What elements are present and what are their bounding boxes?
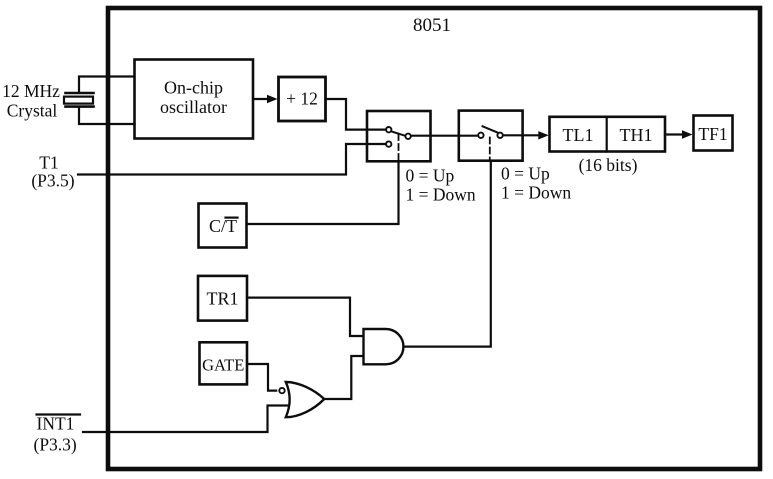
wire divide-by-12 to switch S1 upper input [326, 99, 387, 130]
wire INT1 to OR gate lower input [83, 406, 288, 433]
TR1 block [198, 276, 247, 321]
svg-text:INT1: INT1 [37, 414, 75, 434]
register TL1/TH1 [550, 117, 666, 152]
wire AND gate to switch S2 control [404, 161, 491, 347]
wire C/T to switch S1 control [247, 161, 399, 224]
crystal X1 [64, 93, 94, 107]
OR gate U2 inverted-input bubble [279, 388, 284, 393]
svg-text:TR1: TR1 [206, 289, 238, 309]
wire T1 to switch S1 lower input [78, 144, 386, 175]
switch S2 (run control) [459, 111, 523, 161]
OR gate U2 [286, 382, 324, 417]
svg-text:1 = Down: 1 = Down [501, 183, 571, 203]
svg-text:Crystal: Crystal [7, 101, 58, 121]
node INT1 (P3.3) [34, 414, 81, 455]
wire switch S2 to TL1 [504, 131, 549, 139]
wire crystal to oscillator bottom [79, 108, 135, 124]
on-chip oscillator block [135, 60, 254, 139]
node T1 (P3.5) [31, 153, 74, 191]
svg-text:TH1: TH1 [620, 125, 653, 145]
wire oscillator to divide-by-12 [253, 95, 278, 103]
label 12 MHz Crystal [2, 81, 60, 121]
wire TH1 to TF1 [665, 130, 693, 138]
wire crystal to oscillator top [79, 77, 135, 93]
C/T block [199, 204, 247, 248]
svg-text:C/T: C/T [209, 216, 237, 236]
label 0 = Up / 1 = Down (switch S1) [406, 166, 476, 205]
svg-text:0 = Up: 0 = Up [406, 166, 455, 186]
svg-text:T1: T1 [39, 153, 58, 173]
svg-text:oscillator: oscillator [160, 97, 227, 117]
svg-text:0 = Up: 0 = Up [501, 164, 550, 184]
svg-text:12 MHz: 12 MHz [2, 81, 60, 101]
svg-text:1 = Down: 1 = Down [406, 185, 476, 205]
svg-text:On-chip: On-chip [164, 78, 223, 98]
switch S1 (C/T select) [367, 111, 431, 161]
svg-text:(P3.3): (P3.3) [34, 435, 77, 455]
wire GATE to OR gate inverted input [247, 364, 276, 391]
svg-text:GATE: GATE [202, 356, 244, 375]
flag TF1 [694, 116, 733, 151]
svg-text:(16 bits): (16 bits) [579, 155, 638, 175]
wire OR gate to AND gate lower input [324, 356, 363, 399]
AND gate U1 [364, 329, 404, 364]
divide-by-12 block [279, 77, 326, 121]
svg-text:(P3.5): (P3.5) [31, 171, 74, 191]
label 0 = Up / 1 = Down (switch S2) [501, 164, 571, 203]
svg-text:TF1: TF1 [698, 124, 727, 144]
wire switch S1 output to switch S2 input [412, 135, 478, 137]
svg-text:TL1: TL1 [563, 125, 594, 145]
svg-text:8051: 8051 [413, 15, 451, 36]
wire TR1 to AND gate top input [247, 298, 363, 336]
svg-text:+ 12: + 12 [286, 89, 318, 109]
GATE block [200, 342, 248, 384]
